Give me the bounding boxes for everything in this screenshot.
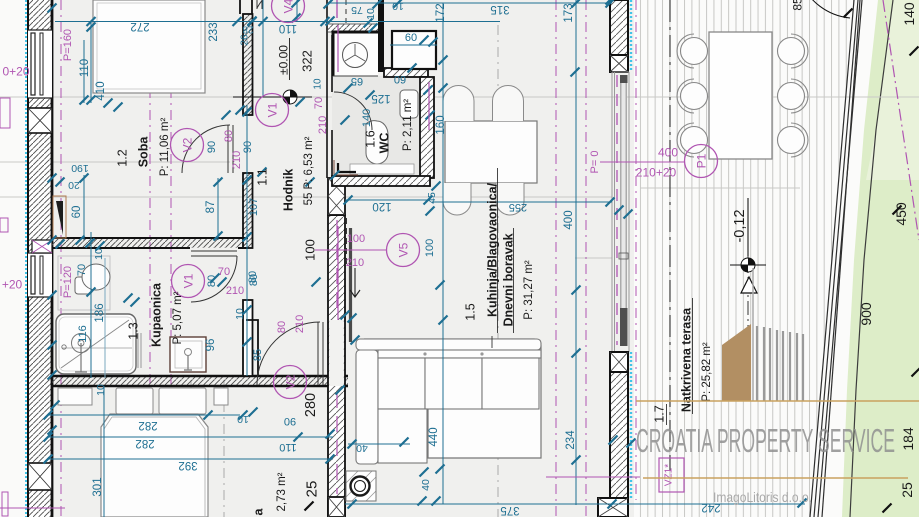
X block bottom of kitchen wall bbox=[328, 497, 345, 517]
dim vertical x443 bbox=[442, 3, 444, 504]
svg-text:140: 140 bbox=[901, 2, 917, 26]
svg-text:20: 20 bbox=[68, 179, 80, 191]
dashed opening hodnik/kitchen bbox=[346, 218, 348, 268]
svg-text:210+20: 210+20 bbox=[636, 165, 677, 179]
svg-text:10: 10 bbox=[392, 0, 404, 12]
grid line short near door bbox=[575, 257, 612, 259]
svg-text:1.1: 1.1 bbox=[256, 168, 270, 185]
svg-text:28: 28 bbox=[242, 23, 254, 34]
magenta leader to V5 bbox=[315, 249, 386, 251]
dim vertical x84 bbox=[83, 40, 85, 103]
svg-text:CROATIA PROPERTY SERVICE: CROATIA PROPERTY SERVICE bbox=[636, 422, 895, 459]
svg-text:-0,12: -0,12 bbox=[732, 209, 748, 242]
road edge line 4 (outer single) bbox=[822, 0, 860, 517]
svg-text:440: 440 bbox=[428, 427, 440, 446]
down arrow symbol bbox=[350, 268, 360, 297]
door arc Kupaonica V1 bbox=[191, 256, 237, 302]
tan line lower bbox=[643, 477, 908, 479]
dim vertical x218 soba bbox=[217, 178, 219, 240]
axis v4 bbox=[555, 0, 557, 517]
grid line horizontal B bbox=[0, 196, 612, 198]
ticks hodnik bbox=[258, 168, 267, 177]
grid line horizontal D bbox=[0, 161, 230, 163]
dim line bottom y505 bbox=[345, 503, 805, 505]
kitchen counter edge along wall bbox=[349, 228, 352, 342]
svg-text:25: 25 bbox=[303, 481, 320, 498]
svg-text:V1: V1 bbox=[181, 273, 195, 288]
brown pergola shadow bbox=[722, 324, 751, 401]
svg-text:322: 322 bbox=[300, 50, 315, 72]
tan line upper bbox=[636, 400, 919, 402]
door arc V2 lower (bedroom door) bbox=[257, 322, 320, 385]
svg-text:210: 210 bbox=[294, 315, 306, 333]
svg-text:1.5: 1.5 bbox=[464, 303, 478, 320]
ticks bathroom bbox=[211, 274, 220, 283]
svg-text:70: 70 bbox=[76, 264, 88, 276]
svg-text:55: 55 bbox=[303, 193, 315, 206]
small latch mark bbox=[619, 253, 628, 259]
svg-text:400: 400 bbox=[563, 210, 575, 229]
WC door threshold corner bbox=[338, 163, 356, 172]
svg-text:Natkrivena terasa: Natkrivena terasa bbox=[680, 307, 694, 412]
dim vertical x263 bbox=[262, 0, 264, 97]
svg-text:10: 10 bbox=[234, 308, 246, 320]
svg-text:210: 210 bbox=[346, 257, 364, 269]
WC shelf bbox=[350, 164, 414, 174]
partition wall Soba/Hodnik vertical bbox=[243, 14, 253, 115]
svg-text:V4: V4 bbox=[281, 0, 295, 13]
svg-text:V2: V2 bbox=[283, 374, 297, 389]
svg-text:90: 90 bbox=[206, 141, 218, 153]
svg-text:V1: V1 bbox=[265, 102, 279, 117]
road edge line 3 bbox=[818, 0, 862, 517]
svg-text:ImagoLitoris d.o.o.: ImagoLitoris d.o.o. bbox=[713, 489, 812, 505]
ticks soba door bbox=[222, 111, 231, 120]
svg-text:1.3: 1.3 bbox=[127, 322, 141, 339]
svg-text:10: 10 bbox=[313, 78, 324, 90]
terrace decking stripes bbox=[634, 0, 854, 517]
magenta line bottom left bbox=[0, 507, 65, 509]
hodnik/kitchen wall vertical bbox=[328, 215, 345, 517]
svg-text:184: 184 bbox=[900, 427, 916, 451]
triangle marker bbox=[741, 277, 757, 293]
X block left wall lower bbox=[28, 463, 52, 490]
axis v8 gray bbox=[223, 380, 225, 517]
strip left of exterior wall bbox=[0, 0, 28, 517]
ventilation label box VZ1 bbox=[659, 458, 684, 492]
dashed line entry x346 bbox=[345, 0, 347, 24]
axis v2 bbox=[149, 0, 151, 517]
svg-text:65: 65 bbox=[351, 75, 363, 87]
column with pipe bottom bbox=[346, 471, 376, 501]
svg-text:80: 80 bbox=[276, 321, 288, 333]
dim line bed y415 bbox=[48, 414, 240, 416]
svg-text:10: 10 bbox=[237, 413, 249, 425]
sliding glass door bbox=[612, 72, 629, 352]
svg-text:1.6: 1.6 bbox=[364, 130, 378, 147]
svg-text:Soba: Soba bbox=[137, 136, 151, 168]
dim vertical x105 bathroom bbox=[104, 258, 106, 378]
window circle V2 lower bbox=[274, 366, 307, 399]
wall Soba/Kupaonica horizontal bbox=[52, 238, 248, 248]
lighter grass patch top right bbox=[866, 0, 919, 180]
cyan strip bottom right wall bbox=[630, 352, 632, 500]
wall jog SE corner Kupaonica bbox=[246, 320, 258, 376]
dim line 40 chaise bbox=[348, 443, 410, 445]
dim vertical x84 lower (60) bbox=[83, 175, 85, 240]
svg-text:60: 60 bbox=[394, 73, 406, 85]
grass green band right bbox=[842, 0, 919, 517]
door arc Soba bbox=[182, 125, 230, 173]
terrace chairs (6 circles) bbox=[681, 38, 708, 65]
grid line horizontal A bbox=[0, 96, 919, 98]
svg-text:26: 26 bbox=[240, 34, 251, 46]
svg-text:±0.00: ±0.00 bbox=[276, 45, 290, 75]
svg-text:315: 315 bbox=[490, 3, 509, 15]
svg-text:233: 233 bbox=[208, 22, 220, 41]
axis v1 bbox=[60, 0, 62, 517]
svg-text:60: 60 bbox=[405, 32, 417, 44]
svg-text:190: 190 bbox=[71, 162, 89, 174]
window circle V4 bbox=[272, 0, 305, 23]
svg-text:P: 11,06 m²: P: 11,06 m² bbox=[159, 118, 171, 177]
svg-text:80: 80 bbox=[223, 130, 235, 142]
road edge line 2 bbox=[814, 0, 858, 517]
entry wall top of hodnik bbox=[251, 0, 253, 14]
magenta axis in door bbox=[616, 75, 618, 345]
svg-text:90: 90 bbox=[242, 141, 254, 153]
svg-text:a: a bbox=[252, 507, 266, 515]
dim vertical x576 long bbox=[575, 0, 577, 505]
apartment interior floor bbox=[28, 0, 634, 517]
dim vertical x247 bbox=[246, 105, 248, 376]
dim line y202 living bbox=[432, 201, 612, 203]
exterior wall right of living room (hatched, with sliding door) bbox=[610, 0, 628, 55]
svg-text:210: 210 bbox=[317, 116, 329, 134]
ticks near WC top bbox=[326, 17, 335, 26]
svg-text:210: 210 bbox=[231, 151, 243, 169]
svg-text:70: 70 bbox=[218, 266, 230, 278]
partition wall Hodnik/Kupaonica segment bbox=[243, 173, 253, 248]
window circle V2 soba bbox=[171, 129, 204, 162]
svg-text:100: 100 bbox=[424, 239, 436, 257]
svg-text:120: 120 bbox=[372, 200, 391, 212]
svg-text:110: 110 bbox=[279, 22, 297, 34]
svg-text:P: 6,53 m²: P: 6,53 m² bbox=[303, 136, 315, 189]
svg-text:85: 85 bbox=[790, 0, 804, 11]
dim vertical x91 bbox=[90, 22, 92, 104]
svg-text:0+20: 0+20 bbox=[2, 64, 29, 78]
svg-text:2,73 m²: 2,73 m² bbox=[276, 472, 288, 511]
svg-text:210: 210 bbox=[226, 285, 244, 297]
dim line bed y437 bbox=[48, 436, 333, 438]
door opening gap in kitchen wall bbox=[329, 320, 344, 386]
tick cluster hodnik bottom bbox=[76, 236, 85, 245]
WC top wall vertical piece bbox=[378, 0, 384, 72]
WC sink bbox=[400, 90, 418, 118]
X block below sliding door bbox=[610, 352, 628, 372]
svg-text:10: 10 bbox=[93, 248, 105, 260]
axis v9 gray bbox=[497, 25, 499, 517]
svg-text:25: 25 bbox=[899, 482, 915, 498]
svg-text:P=160: P=160 bbox=[62, 29, 74, 61]
WC left wall double line bbox=[327, 0, 332, 178]
WC toilet bbox=[366, 121, 388, 164]
wall tick cluster left bbox=[48, 174, 57, 183]
door panel gray band bbox=[620, 75, 627, 346]
WC room floor bbox=[332, 76, 420, 178]
bed bottom room with pillows bbox=[58, 388, 92, 405]
svg-text:100: 100 bbox=[303, 239, 318, 261]
svg-text:125: 125 bbox=[371, 92, 390, 104]
interior dining chairs bottom bbox=[443, 183, 471, 215]
window circle V1 bath bbox=[172, 265, 205, 298]
svg-text:P: 31,27 m²: P: 31,27 m² bbox=[523, 260, 535, 320]
hatch strip above washing machine niche bbox=[328, 24, 378, 32]
svg-text:85: 85 bbox=[252, 349, 264, 361]
svg-text:WC: WC bbox=[378, 133, 392, 154]
window circle V5 bbox=[387, 234, 420, 267]
svg-text:301: 301 bbox=[92, 477, 104, 496]
svg-text:392: 392 bbox=[178, 459, 197, 471]
svg-text:410: 410 bbox=[95, 81, 107, 100]
X block above sliding door bbox=[610, 55, 628, 72]
svg-text:10: 10 bbox=[365, 8, 377, 20]
svg-text:116: 116 bbox=[77, 325, 89, 343]
terrace dining table bbox=[709, 32, 772, 159]
svg-text:100: 100 bbox=[347, 233, 365, 245]
arc top right terrace bbox=[800, 0, 850, 18]
dim vertical x92 bathroom bbox=[90, 232, 92, 378]
lower right exterior wall bbox=[610, 372, 628, 498]
section dash-dot line through terrace bbox=[747, 253, 749, 401]
svg-text:45: 45 bbox=[426, 192, 438, 204]
dim line y3 bbox=[330, 2, 612, 4]
grid line horizontal C (terrace) bbox=[640, 187, 800, 189]
svg-text:10: 10 bbox=[95, 384, 107, 396]
svg-text:375: 375 bbox=[500, 504, 519, 516]
door circle P1 bbox=[685, 145, 718, 178]
svg-text:80: 80 bbox=[247, 271, 259, 283]
svg-text:900: 900 bbox=[858, 302, 874, 326]
door arc WC bbox=[334, 92, 372, 130]
exterior wall left (hatched) bbox=[28, 0, 52, 517]
toilet bathroom bbox=[75, 277, 92, 294]
svg-text:272: 272 bbox=[130, 20, 149, 32]
svg-text:VZ1*: VZ1* bbox=[664, 464, 675, 486]
svg-text:400: 400 bbox=[658, 145, 678, 159]
svg-text:282: 282 bbox=[138, 419, 157, 431]
ticks right wall bbox=[606, 0, 615, 5]
axis v5 bbox=[585, 0, 587, 517]
svg-text:172: 172 bbox=[435, 3, 447, 22]
svg-text:110: 110 bbox=[279, 441, 297, 453]
svg-text:1.2: 1.2 bbox=[116, 149, 130, 166]
dim vertical x104 bedroom bbox=[103, 386, 105, 517]
svg-text:70: 70 bbox=[313, 97, 325, 109]
svg-text:Kupaonica: Kupaonica bbox=[150, 282, 164, 347]
magenta line P=0 bbox=[600, 161, 685, 163]
WC bottom wall hatched bbox=[332, 176, 430, 186]
vent block left wall middle bbox=[32, 240, 52, 253]
partition wall below Kupaonica door bbox=[243, 300, 253, 376]
magenta short wall axis WC bbox=[337, 25, 339, 72]
svg-text:96: 96 bbox=[205, 339, 217, 352]
svg-text:173: 173 bbox=[563, 3, 575, 22]
window left wall top bbox=[28, 30, 52, 98]
corner sofa living room bbox=[364, 339, 541, 458]
wall Kupaonica/bedroom horizontal bbox=[52, 376, 348, 386]
dim line kitchen y45 bbox=[390, 44, 437, 46]
magenta stub above niche bbox=[336, 0, 338, 18]
dim line WC y200 bbox=[345, 199, 430, 201]
cyan insulation strip left wall bbox=[25, 0, 27, 517]
svg-text:40: 40 bbox=[420, 479, 432, 491]
svg-text:P: 2,11 m²: P: 2,11 m² bbox=[402, 99, 414, 151]
ticks WC interior bbox=[366, 91, 375, 100]
svg-text:P1: P1 bbox=[694, 153, 708, 168]
boundary dash-dot line on terrace bbox=[669, 0, 671, 470]
magenta axis in kitchen wall bbox=[336, 220, 338, 315]
kitchen corner counter bbox=[392, 31, 436, 69]
door arc entry (top) bbox=[257, 0, 300, 8]
dim line top y22 bbox=[55, 21, 500, 23]
svg-text:+20: +20 bbox=[2, 277, 23, 291]
axis v3 bbox=[170, 0, 172, 517]
svg-text:75: 75 bbox=[351, 4, 363, 16]
magenta boxes left edge bbox=[0, 98, 10, 128]
grass inner boundary line bbox=[850, 0, 893, 517]
window left wall bathroom bbox=[28, 253, 52, 297]
svg-text:110: 110 bbox=[79, 59, 91, 77]
X hatch block below WC bbox=[328, 178, 345, 215]
washing machine bbox=[343, 43, 368, 68]
WC top wall hatched band under counter bbox=[384, 68, 428, 77]
axis v6 wall centre bbox=[635, 0, 637, 500]
dining table interior bbox=[445, 121, 537, 183]
cyan strip top right wall bbox=[630, 0, 632, 72]
bathroom vanity outline bbox=[58, 256, 110, 310]
svg-text:P: 25,82 m²: P: 25,82 m² bbox=[701, 342, 713, 402]
svg-text:40: 40 bbox=[356, 442, 368, 454]
svg-text:160: 160 bbox=[435, 115, 447, 134]
svg-text:P= 0: P= 0 bbox=[589, 151, 601, 174]
black ticks grass bbox=[910, 47, 919, 56]
interior dining chairs top bbox=[443, 86, 474, 122]
gray slat bars bbox=[757, 326, 803, 401]
shower tray bbox=[56, 314, 136, 374]
wardrobe / bed top room (Soba) bbox=[93, 0, 205, 93]
svg-text:80: 80 bbox=[206, 275, 218, 287]
window circle V1 hodnik bbox=[256, 94, 289, 127]
svg-text:140: 140 bbox=[361, 109, 373, 127]
road edge line 1 bbox=[810, 0, 854, 517]
axis v7 gray bbox=[190, 380, 192, 517]
duct wedge bathroom corner bbox=[53, 196, 66, 238]
svg-text:282: 282 bbox=[135, 437, 154, 449]
magenta diagonal axis in grass bbox=[883, 0, 919, 240]
svg-text:186: 186 bbox=[94, 303, 106, 322]
magenta line y477 bbox=[546, 476, 640, 478]
svg-text:60: 60 bbox=[71, 206, 83, 219]
shower glass panel bbox=[137, 333, 139, 368]
X block bottom right wall bbox=[598, 498, 628, 517]
svg-text:255: 255 bbox=[509, 201, 527, 213]
svg-text:90: 90 bbox=[284, 415, 296, 427]
svg-text:P: 5,07 m²: P: 5,07 m² bbox=[172, 291, 184, 344]
svg-text:V5: V5 bbox=[396, 242, 410, 257]
washbasin cabinet bbox=[170, 337, 206, 372]
svg-text:87: 87 bbox=[205, 201, 217, 214]
svg-text:107: 107 bbox=[248, 198, 260, 216]
X block left wall upper bbox=[28, 108, 52, 133]
gray bar left bbox=[752, 268, 754, 401]
dim line bed y459 bbox=[48, 458, 333, 460]
svg-text:V2: V2 bbox=[180, 137, 194, 152]
svg-text:P=120: P=120 bbox=[62, 266, 74, 298]
svg-text:280: 280 bbox=[303, 393, 319, 417]
leader line kuhinja bbox=[491, 336, 493, 348]
washing machine niche bbox=[333, 32, 378, 76]
WC right wall hatched bbox=[420, 77, 434, 178]
svg-text:Hodnik: Hodnik bbox=[282, 169, 296, 211]
svg-text:1.7: 1.7 bbox=[653, 405, 667, 422]
svg-text:234: 234 bbox=[565, 430, 577, 450]
ticks v2 door bbox=[124, 294, 133, 303]
